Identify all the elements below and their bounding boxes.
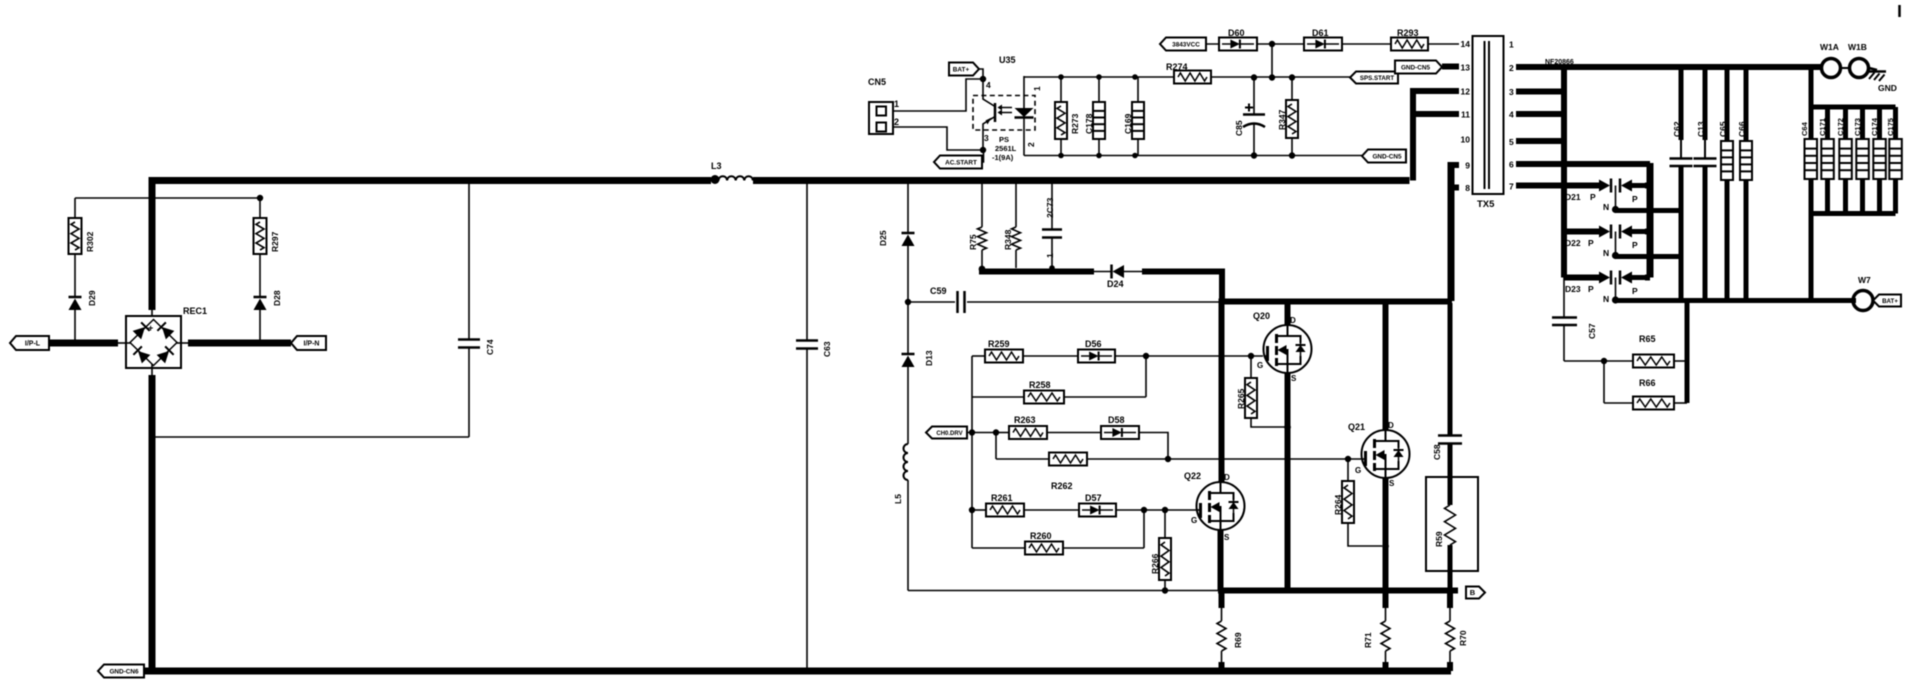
ground rail GND-CN6 (bottom) [144,668,1451,674]
svg-text:C85: C85 [1234,120,1244,136]
wire: snubber return to output rail [1685,299,1690,403]
svg-text:D: D [1290,316,1296,325]
svg-text:11: 11 [1461,110,1470,120]
svg-text:AC.START: AC.START [945,160,977,167]
wire: pin 7 to D21 anode [1516,183,1600,189]
svg-text:2561L: 2561L [995,144,1017,153]
svg-text:R263: R263 [1014,415,1036,425]
svg-text:10: 10 [1461,135,1471,145]
wire: CN5 pin1 to opto collector [893,79,983,111]
jumper W7 [1853,275,1873,311]
wire: pins 3/4/5 common vertical [1516,67,1564,278]
diode D21 (dual) [1565,179,1650,214]
svg-text:R262: R262 [1051,481,1073,491]
wire: bridge bottom to ground rail [151,364,153,671]
capacitor C59 [905,286,1221,313]
tag I/P-N [291,336,326,350]
jumper W1A [1820,42,1841,78]
capacitor C63 [796,178,832,671]
op-amp U35 optocoupler PS2561L [973,55,1042,162]
svg-text:GND-CN6: GND-CN6 [109,669,139,676]
svg-text:+: + [148,323,153,333]
wire: pin 6 to rectifier anode rail [1516,163,1650,278]
svg-text:W7: W7 [1858,275,1871,285]
capacitor C74 [458,184,495,437]
bridge rectifier REC1 [126,306,207,368]
svg-text:C171: C171 [1818,118,1827,136]
resistor R70 [1446,591,1469,672]
capacitor C175 [1886,107,1902,214]
diode D61 [1304,28,1342,51]
svg-text:4: 4 [986,80,991,90]
wire: D22 N output [1616,254,1682,259]
svg-text:P: P [1590,192,1596,202]
diode D58 [1047,415,1168,459]
svg-text:P: P [1632,240,1638,250]
svg-text:2: 2 [894,117,899,127]
svg-text:1: 1 [1509,40,1514,50]
svg-text:6: 6 [1509,160,1514,170]
capacitor C65 [1718,67,1733,300]
resistor R273 [1055,77,1080,155]
tag SPS.START [1350,72,1398,84]
node: opto collector junction [980,76,986,82]
tag BAT+ (output) [1873,295,1901,307]
svg-text:1: 1 [1032,86,1042,91]
svg-text:PS: PS [999,135,1009,144]
svg-text:GND-CN5: GND-CN5 [1401,65,1431,72]
wire: clamp rail to D24 [979,266,1094,273]
diode D13 [902,302,935,444]
svg-text:D56: D56 [1085,339,1102,349]
resistor R261 [972,493,1024,517]
svg-text:C58: C58 [1432,444,1442,460]
svg-text:R258: R258 [1029,380,1051,390]
svg-text:Q20: Q20 [1253,311,1270,321]
svg-text:C174: C174 [1870,117,1879,136]
capacitor C171 [1818,107,1834,214]
capacitor C172 [1836,107,1852,214]
svg-text:R302: R302 [85,231,95,252]
connector CN5 [868,77,899,134]
svg-text:C13: C13 [1696,121,1706,137]
tag GND-CN6 [98,665,144,678]
svg-text:R69: R69 [1233,632,1243,648]
svg-text:G: G [1257,361,1263,370]
capacitor C62 [1670,67,1693,300]
svg-text:D60: D60 [1228,28,1245,38]
svg-text:C172: C172 [1836,118,1845,136]
wire: pins 9/8 down to snubber rail [1449,162,1459,301]
svg-text:NF20866: NF20866 [1545,59,1574,66]
transformer TX5 [1473,36,1504,210]
capacitor C58 [1432,303,1462,477]
resistor R293 [1342,28,1459,51]
tag GND-CN5 (to pin 13) [1395,61,1459,74]
svg-text:L5: L5 [893,494,903,504]
node: opto emitter junction [980,147,986,153]
wire: D24 to switch drain rail [1142,272,1222,302]
svg-text:R259: R259 [988,339,1010,349]
wire: source bus (y=590) [908,587,1458,594]
wire: output negative rail (y=300) to W7 [1616,298,1857,303]
diode D29 [69,254,98,343]
svg-text:C173: C173 [1853,118,1862,136]
svg-text:D22: D22 [1565,238,1581,248]
wire: I/P-L to bridge [49,340,131,347]
ground [1868,68,1897,93]
diode D56 [1023,339,1263,363]
resistor R66 [1604,361,1687,410]
svg-text:R273: R273 [1070,113,1080,134]
capacitor C178 [1084,77,1105,155]
svg-text:N: N [1603,202,1609,212]
wire: drain rail (y=301) [1219,299,1452,305]
junction on I/P-L wire [72,340,78,346]
svg-text:D58: D58 [1108,415,1125,425]
transistor Q20 [1253,302,1312,591]
svg-text:R59: R59 [1434,531,1444,547]
svg-text:R293: R293 [1397,28,1419,38]
svg-text:C65: C65 [1718,121,1728,137]
wire: drive node verticals [967,429,999,548]
capacitor C85 (electrolytic) [1234,77,1265,155]
wire: bridge to I/P-N [176,342,291,344]
svg-text:1: 1 [1045,253,1055,258]
svg-text:L3: L3 [711,161,722,171]
svg-text:2: 2 [1026,142,1036,147]
svg-text:W1B: W1B [1848,42,1867,52]
svg-text:3: 3 [1509,87,1514,97]
svg-text:C64: C64 [1800,121,1809,136]
svg-text:12: 12 [1461,87,1471,97]
resistor R263 [996,415,1047,439]
svg-text:D23: D23 [1565,284,1581,294]
svg-text:D21: D21 [1565,192,1581,202]
svg-text:C178: C178 [1084,113,1094,134]
tag B [1466,587,1485,599]
wire: pin 2 output rail (top, to W1A) [1516,59,1821,67]
svg-text:1: 1 [894,99,899,109]
svg-text:SPS.START: SPS.START [1360,75,1394,82]
svg-text:R261: R261 [991,493,1013,503]
capacitor C174 [1870,107,1886,214]
svg-text:REC1: REC1 [183,306,207,316]
tag CH0.DRV [926,427,967,439]
svg-text:CN5: CN5 [868,77,886,87]
capacitor C173 [1853,107,1869,214]
capacitor C169 [1123,77,1144,155]
resistor R348 [1003,178,1021,268]
wire: pins 12/11 to main bus [1413,88,1459,181]
svg-text:D: D [1224,473,1230,482]
svg-text:C74: C74 [485,339,495,355]
svg-text:BAT+: BAT+ [1882,298,1898,305]
capacitor 2C73 [1042,178,1062,271]
svg-text:R71: R71 [1363,632,1373,648]
svg-text:S: S [1389,479,1395,488]
svg-text:S: S [1291,374,1297,383]
tag AC.START [934,156,982,169]
resistor R274 [1166,62,1211,84]
border tick mark [1898,5,1901,17]
svg-text:U35: U35 [999,55,1016,65]
svg-text:B: B [1470,588,1476,597]
junction on I/P-N wire [257,340,263,346]
svg-text:R260: R260 [1030,531,1052,541]
resistor R259 [972,339,1023,432]
svg-text:R347: R347 [1277,109,1287,130]
wire: main DC bus (top thick rail) [152,181,1410,321]
svg-text:GND-CN5: GND-CN5 [1372,154,1402,161]
resistor R266 [1150,510,1171,594]
svg-text:P: P [1632,286,1638,296]
svg-text:P: P [1588,238,1594,248]
inductor L5 [893,444,908,591]
wire: output cap bank feeder [1811,67,1896,300]
svg-text:3: 3 [984,133,989,143]
resistor R265 [1236,353,1286,427]
svg-text:R265: R265 [1236,388,1246,409]
svg-text:13: 13 [1461,63,1471,73]
svg-text:3843VCC: 3843VCC [1172,42,1200,49]
svg-text:R266: R266 [1150,553,1160,574]
capacitor C66 [1737,67,1752,300]
resistor R302 [69,198,96,254]
wire: D21 N output [1616,208,1682,213]
svg-text:C175: C175 [1886,118,1895,136]
svg-text:14: 14 [1461,39,1471,49]
resistor R262 [996,453,1361,492]
wire: opto bottom rail (aux gnd) [1024,152,1362,158]
svg-text:8: 8 [1465,183,1470,193]
transistor Q22 [1184,471,1245,591]
diode D60 [1206,28,1257,51]
resistor R264 [1333,459,1382,546]
inductor L3 [711,161,753,184]
resistor R59 (boxed) [1426,477,1478,591]
svg-text:R65: R65 [1639,334,1656,344]
svg-text:R297: R297 [270,231,280,252]
svg-text:D: D [1388,421,1394,430]
svg-text:D24: D24 [1107,279,1124,289]
tag I/P-L [10,336,49,350]
capacitor C13 [1694,67,1717,300]
svg-text:4: 4 [1509,110,1514,120]
svg-text:G: G [1355,466,1361,475]
svg-text:2: 2 [1509,63,1514,73]
svg-text:R70: R70 [1458,630,1468,646]
jumper W1B [1841,42,1869,78]
svg-text:R75: R75 [968,234,978,250]
svg-text:P: P [1632,194,1638,204]
wire: opto top rail (VCC aux) [1024,74,1350,81]
resistor R260 [972,510,1144,555]
svg-text:N: N [1603,248,1609,258]
capacitor C64 [1800,121,1817,179]
svg-text:C57: C57 [1587,323,1597,339]
resistor R75 [968,178,987,268]
svg-text:GND: GND [1878,83,1897,93]
svg-text:TX5: TX5 [1477,199,1495,210]
wire: snubber top link R302-R297 [75,195,263,201]
svg-text:D25: D25 [878,230,888,246]
diode D24 [1094,265,1142,290]
wire: Q22 drain vertical [1219,299,1225,483]
svg-text:9: 9 [1465,161,1470,171]
svg-text:Q21: Q21 [1348,422,1365,432]
resistor R347 [1277,77,1298,155]
wire: BAT+ tag to collector node [979,69,983,79]
resistor R65 [1564,334,1687,368]
resistor R71 [1363,591,1390,675]
diode D57 [1024,493,1197,517]
svg-text:I/P-L: I/P-L [25,341,41,348]
resistor R297 [254,198,281,254]
capacitor C57 [1552,278,1597,362]
svg-text:Q22: Q22 [1184,471,1201,481]
node: D60/D61 junction [1257,41,1304,77]
resistor R69 [1217,591,1243,675]
svg-text:2C73: 2C73 [1045,197,1055,218]
svg-text:D61: D61 [1312,28,1329,38]
svg-text:7: 7 [1509,182,1514,192]
diode D28 [254,254,283,343]
svg-text:5: 5 [1509,137,1514,147]
svg-text:C63: C63 [822,341,832,357]
svg-text:N: N [1603,294,1609,304]
diode D25 [878,178,915,302]
tag BAT+ [949,63,979,76]
svg-text:C59: C59 [930,286,947,296]
resistor R258 [972,356,1146,404]
svg-text:P: P [1588,284,1594,294]
svg-text:G: G [1191,516,1197,525]
svg-text:C169: C169 [1123,113,1133,134]
svg-text:R274: R274 [1166,62,1188,72]
svg-text:W1A: W1A [1820,42,1839,52]
svg-text:BAT+: BAT+ [953,67,970,74]
svg-text:D57: D57 [1085,493,1102,503]
transistor Q21 [1348,302,1410,591]
svg-text:S: S [1224,533,1230,542]
diode D23 (dual) [1564,271,1650,305]
wire: CN5 pin2 to opto emitter [893,127,983,150]
svg-text:C62: C62 [1672,121,1682,137]
svg-text:R348: R348 [1003,229,1013,250]
svg-text:D28: D28 [272,290,282,306]
svg-text:I/P-N: I/P-N [304,341,320,348]
svg-text:R66: R66 [1639,378,1656,388]
svg-text:R264: R264 [1333,494,1343,515]
wire: C74 bottom return to bridge negative [152,436,469,438]
wire: AC.START to emitter node [982,150,984,162]
svg-text:CH0.DRV: CH0.DRV [936,431,962,437]
tag 3843VCC [1160,38,1206,51]
svg-text:-1(9A): -1(9A) [992,153,1014,162]
tag GND-CN5 (aux ground) [1362,150,1406,163]
svg-text:D13: D13 [924,350,934,366]
svg-text:C66: C66 [1737,121,1747,137]
svg-text:D29: D29 [87,290,97,306]
diode D22 (dual) [1564,225,1650,260]
